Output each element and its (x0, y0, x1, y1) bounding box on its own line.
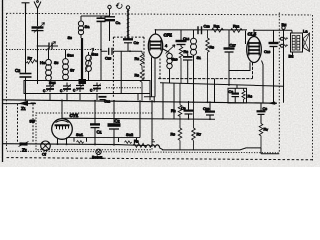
anode wire top (156, 29, 248, 31)
transformer winding 1 (292, 36, 295, 51)
svg-text:C9: C9 (181, 106, 186, 111)
fuse Z1 wedge (19, 101, 36, 106)
main HT bus (3, 100, 278, 103)
svg-text:4: 4 (165, 44, 167, 48)
RC network box C6/R4 (228, 85, 247, 103)
svg-text:Bu: Bu (282, 22, 287, 27)
svg-text:R11: R11 (214, 24, 220, 29)
capacitor C20 (205, 101, 215, 119)
svg-text:R3: R3 (134, 139, 139, 144)
inner dashed vertical divider (278, 13, 280, 153)
svg-text:S10: S10 (172, 57, 178, 62)
svg-text:Sa1: Sa1 (76, 132, 84, 137)
capacitor C16 (269, 30, 279, 103)
coil S10 with arrow (162, 45, 175, 83)
trimmer cap 2 (63, 83, 71, 93)
svg-text:Sa4: Sa4 (67, 53, 74, 58)
svg-text:C2: C2 (15, 68, 20, 73)
svg-text:C1: C1 (97, 130, 102, 135)
svg-text:C8: C8 (263, 106, 268, 111)
lower right rail (162, 148, 279, 154)
socket pins Bu (281, 37, 288, 47)
resistor R3 (133, 143, 147, 147)
resistor R6 (179, 47, 183, 84)
capacitor C1 (smoothing) (90, 124, 100, 144)
transformer secondary drop (292, 52, 294, 58)
capacitor C3 (antenna series, variable) (32, 23, 45, 33)
loudspeaker (303, 33, 310, 52)
resistor R12 (231, 29, 243, 33)
capacitor C14 (176, 30, 187, 47)
svg-text:Z1: Z1 (21, 106, 26, 111)
wire earth lead lower (25, 77, 27, 100)
svg-text:R9: R9 (135, 73, 140, 78)
wire antenna lead (37, 12, 39, 26)
wire earth lead (25, 13, 27, 73)
HT line to smoothing (62, 118, 215, 119)
svg-text:CL4: CL4 (248, 32, 257, 37)
fuse Z2 (19, 142, 29, 147)
resistor R11 (212, 28, 224, 32)
svg-text:S1: S1 (197, 55, 202, 60)
coil S5 (46, 50, 52, 81)
screened lead from post 2 (127, 9, 129, 40)
resistor R9b (140, 70, 144, 101)
mains lead line (3, 103, 37, 105)
capacitor Cb (97, 16, 106, 81)
trimmer cap 3 (76, 83, 84, 93)
wire antenna lead lower (37, 30, 39, 84)
capacitor C2 (earth series) (20, 74, 32, 78)
wire AF feed (173, 83, 175, 119)
svg-text:R7: R7 (197, 132, 202, 137)
cathode line (158, 62, 252, 78)
grid stub to CL4 (245, 31, 247, 44)
svg-text:C6: C6 (229, 89, 234, 94)
coil Sa3 (86, 52, 92, 81)
wire top link (81, 15, 110, 17)
resistor R7 drop (192, 101, 196, 150)
coil S1 (191, 30, 197, 102)
svg-text:Beleu.: Beleu. (92, 155, 103, 160)
svg-text:C17: C17 (230, 43, 237, 48)
chassis line (3, 144, 164, 150)
rectifier tube CY1 (52, 115, 73, 145)
terminal post 3 (282, 26, 285, 29)
terminal post 1 (108, 5, 111, 8)
capacitor C15 (series) (109, 48, 112, 55)
output transformer box (291, 33, 303, 52)
outer dashed border right (312, 15, 314, 161)
tuning gang thick bar (81, 38, 83, 80)
trimmer capacitor C4 (38, 42, 59, 51)
tube CL4 (247, 30, 262, 62)
resistor R7 (26, 60, 38, 64)
oscillator dashed box (113, 37, 144, 98)
capacitor C18 (183, 54, 193, 84)
terminal post 2 (126, 6, 129, 9)
wire IF link (101, 50, 142, 52)
svg-text:Ca: Ca (116, 20, 121, 25)
capacitor Cu (99, 97, 107, 100)
mains cord dashed 1 (17, 104, 19, 143)
resistor R9 (206, 30, 210, 103)
wire rectifier feed (62, 101, 152, 145)
wire drop (214, 79, 216, 103)
antenna (34, 2, 41, 13)
svg-text:R6: R6 (184, 49, 189, 54)
svg-text:Sa3: Sa3 (92, 52, 99, 57)
svg-text:Ha: Ha (40, 60, 46, 65)
svg-text:C20: C20 (203, 106, 210, 111)
svg-text:Cw: Cw (134, 40, 140, 45)
switch Sa2 (119, 138, 137, 144)
capacitor C19 (184, 101, 194, 119)
svg-text:C13: C13 (204, 24, 211, 29)
transformer winding 2 (297, 36, 300, 51)
trimmer cap 4 (93, 83, 101, 93)
arrow of Sa3 (86, 48, 94, 72)
svg-text:R7: R7 (28, 56, 33, 61)
svg-text:R12: R12 (233, 24, 240, 29)
coil S7 (63, 50, 69, 81)
outer dashed border top (7, 13, 312, 15)
resistor R2 (178, 105, 182, 128)
wire oscillator drop (120, 51, 122, 93)
svg-text:R9: R9 (210, 45, 215, 50)
capacitor C2 (smoothing) (108, 123, 121, 144)
screen wire bus (160, 83, 284, 86)
svg-text:C2: C2 (115, 119, 120, 124)
svg-text:R8: R8 (135, 56, 140, 61)
mains cord dashed 2 (32, 104, 34, 143)
svg-text:La: La (303, 29, 308, 34)
capacitor C8 (257, 103, 266, 123)
svg-text:CY1: CY1 (70, 113, 79, 118)
svg-text:R6: R6 (171, 132, 176, 137)
svg-text:CF1: CF1 (164, 33, 173, 38)
dotted node line (7, 49, 101, 51)
arrow on bus end (267, 102, 275, 105)
dashed shield edge (159, 59, 161, 79)
HT drop to AF stage (162, 83, 164, 119)
svg-text:Sa: Sa (85, 24, 91, 29)
resistor R8 (140, 51, 144, 70)
capacitor C13 (series) (198, 26, 202, 34)
power section dotted box (36, 113, 152, 150)
svg-text:Sa2: Sa2 (126, 132, 134, 137)
svg-text:C16: C16 (264, 49, 271, 54)
svg-text:C14: C14 (183, 36, 190, 41)
svg-text:3W: 3W (30, 120, 36, 124)
dial lamp (96, 149, 101, 154)
tube CF1 (144, 30, 163, 103)
ground blob of gang (79, 79, 87, 84)
wire CL4 aux pin (262, 61, 264, 104)
box drop wires (26, 81, 151, 101)
dotted bottom rail (7, 151, 279, 153)
svg-text:S5: S5 (54, 60, 59, 65)
anode wire CL4 to output (254, 30, 292, 33)
svg-text:R4: R4 (248, 94, 253, 99)
svg-text:S8: S8 (68, 35, 73, 40)
band switch box (24, 81, 150, 94)
choke Dr (146, 140, 160, 148)
pilot lamp Gl (41, 141, 51, 151)
outer dashed border left (6, 13, 8, 151)
earth terminal (22, 3, 30, 13)
rotation arrow glyph (116, 3, 122, 8)
capacitor Cw (123, 39, 133, 51)
svg-text:R2: R2 (171, 108, 176, 113)
trimmer cap 1 (46, 83, 54, 93)
resistor R5 drop (178, 83, 182, 150)
speaker feed wire (283, 30, 285, 103)
left solid border line (2, 0, 4, 162)
svg-text:Z2: Z2 (22, 148, 27, 153)
switch Sa1 (67, 138, 141, 144)
capacitor C17 (224, 30, 235, 85)
dotted continuation inside box (106, 87, 141, 89)
svg-text:S7: S7 (70, 68, 75, 73)
svg-text:Rv: Rv (264, 127, 269, 132)
svg-text:C15: C15 (105, 56, 112, 61)
resistor Rv (259, 124, 263, 148)
coil Sa (78, 16, 83, 38)
outer dashed border bottom (7, 158, 314, 160)
wire CL4 cathode left (229, 62, 250, 70)
capacitor Ca (105, 9, 116, 41)
